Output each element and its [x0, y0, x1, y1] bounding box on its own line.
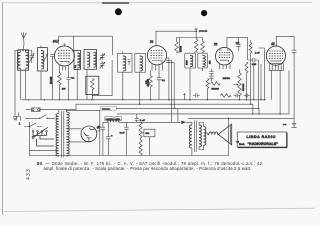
resistor R3	[175, 39, 179, 53]
grid cap wire 75	[227, 38, 248, 60]
bus 3	[100, 108, 259, 114]
svg-text:0,05: 0,05	[252, 64, 257, 66]
label campo	[105, 117, 114, 121]
voice coil	[205, 132, 218, 135]
oscillator coil L2	[38, 46, 48, 100]
tube V5 80	[81, 126, 97, 142]
svg-text:400: 400	[62, 89, 66, 91]
switch S2	[24, 123, 42, 127]
IF transformer IFT1	[84, 50, 97, 100]
plate loop 42	[277, 36, 295, 50]
resistor R4	[194, 31, 198, 52]
svg-text:mod.: mod.	[239, 142, 245, 146]
tone capacitor	[292, 50, 297, 52]
svg-text:0,1: 0,1	[71, 78, 75, 80]
rectifier wires	[66, 110, 99, 155]
page top edge	[3, 2, 312, 4]
svg-text:8 mF: 8 mF	[120, 133, 126, 135]
mains left wire	[29, 122, 57, 156]
trimmer capacitor B	[100, 61, 106, 69]
pointer arrow	[235, 141, 239, 143]
grid cap wire 78	[156, 31, 196, 46]
IFT2 can B	[198, 53, 208, 71]
padder box B1	[86, 76, 99, 100]
registration dot left	[115, 8, 122, 15]
svg-text:250000: 250000	[211, 89, 219, 91]
filter capacitor A	[101, 122, 105, 155]
svg-text:500000: 500000	[243, 83, 245, 91]
grid resistor 42	[245, 62, 248, 100]
decoupling row capacitor c	[244, 94, 251, 98]
filter capacitor B	[106, 122, 110, 155]
wire link	[194, 38, 203, 53]
volume potentiometer	[234, 70, 242, 100]
tap connector	[195, 28, 198, 32]
svg-text:BOB.: BOB.	[116, 119, 121, 121]
svg-text:250000: 250000	[223, 78, 231, 80]
wire column b	[253, 62, 255, 100]
output transformer T2 core	[194, 121, 196, 153]
svg-text:50000: 50000	[180, 45, 182, 52]
capacitor 2mF	[135, 114, 139, 122]
junction arrow	[183, 93, 186, 100]
label bob	[115, 117, 121, 121]
divider box	[141, 129, 155, 155]
svg-text:100: 100	[236, 42, 240, 44]
filter capacitor C	[124, 122, 128, 155]
page bottom edge	[4, 208, 315, 211]
tube V1 6A7	[54, 44, 74, 71]
wire avc	[166, 63, 178, 123]
svg-text:"RADIORURALE": "RADIORURALE"	[248, 142, 279, 146]
T2 primary	[189, 122, 192, 155]
wire column a with resistor	[249, 40, 252, 104]
coupling capacitor 0,05	[248, 58, 259, 62]
speaker	[218, 124, 232, 145]
tube V4 42	[266, 46, 285, 70]
return wire right	[228, 118, 230, 155]
mains plug	[17, 113, 21, 121]
bleeder resistor lower	[139, 140, 142, 156]
resistor R6	[206, 79, 209, 100]
trimmer capacitor A	[100, 53, 106, 60]
capacitor 100	[236, 38, 240, 51]
svg-text:+: +	[111, 133, 113, 137]
wire screen 78	[166, 61, 172, 123]
wire from IFT1 bottom	[92, 60, 112, 96]
bus 5	[188, 117, 294, 119]
bus 1	[22, 99, 267, 119]
svg-text:o m: o m	[283, 124, 287, 126]
svg-text:6A7: 6A7	[53, 40, 59, 44]
capacitor C4	[157, 71, 161, 100]
registration dot right	[201, 10, 207, 16]
antenna	[21, 32, 26, 49]
diode caps	[209, 69, 213, 81]
bus 2	[76, 104, 253, 114]
grid capacitor	[50, 55, 54, 100]
ground lead	[13, 51, 20, 121]
T1 secondary	[66, 110, 99, 156]
diode load resistor	[211, 82, 221, 86]
maker label box	[237, 132, 287, 148]
decoupling row capacitor a	[193, 94, 200, 98]
voltage selector	[32, 127, 54, 146]
svg-text:4 mF: 4 mF	[255, 53, 261, 55]
screen wire 42	[288, 70, 290, 114]
caption line 2	[44, 166, 320, 171]
B plus line	[103, 121, 192, 124]
svg-text:75: 75	[214, 43, 218, 47]
coil L3	[74, 51, 81, 100]
svg-text:presa alt.: presa alt.	[199, 30, 208, 33]
page number 433 rotated	[26, 168, 32, 180]
bus3 label patch	[101, 106, 116, 110]
cathode resistor R1	[58, 71, 62, 100]
decoupling row capacitor b	[234, 94, 241, 98]
T1 primary	[56, 110, 59, 156]
fuse	[32, 108, 41, 112]
caption line 1	[37, 161, 317, 166]
tube V3 75	[216, 47, 234, 69]
switch S1	[25, 115, 55, 119]
svg-text:5000: 5000	[187, 60, 189, 65]
tube V2 78	[147, 46, 166, 71]
svg-text:+: +	[98, 124, 100, 128]
wire column e	[259, 48, 265, 100]
antenna coil L1	[18, 50, 29, 100]
wire column d	[260, 64, 262, 100]
grid loop wire over 6A7	[59, 36, 113, 55]
T2 secondary	[199, 123, 208, 150]
wire plate 78	[166, 58, 169, 100]
coil box L5	[135, 54, 146, 105]
svg-text:50.000: 50.000	[50, 76, 53, 84]
coil box L4	[118, 51, 132, 100]
svg-text:Antenna: Antenna	[102, 108, 111, 111]
decoupling row resistor	[221, 94, 232, 98]
tuning capacitor C1	[26, 51, 35, 64]
field coil	[108, 119, 119, 122]
svg-text:2 mF: 2 mF	[140, 120, 146, 122]
fuse line	[26, 104, 76, 110]
bypass capacitor C3	[66, 71, 70, 100]
bleeder resistor upper	[139, 122, 142, 140]
svg-text:CAMPO: CAMPO	[106, 118, 114, 121]
svg-text:42: 42	[271, 42, 275, 46]
svg-text:LINDA RADIO: LINDA RADIO	[247, 135, 276, 139]
cathode resistor R2	[149, 71, 153, 100]
svg-text:1: 1	[19, 122, 21, 126]
ground symbol	[292, 118, 297, 127]
resistor R5	[201, 38, 205, 54]
wire sg feed	[177, 38, 194, 53]
svg-text:78: 78	[150, 40, 154, 44]
IFT2 can A	[185, 53, 196, 100]
svg-text:0,1: 0,1	[162, 80, 166, 82]
bottom bus	[29, 155, 228, 157]
cathode wire 42	[270, 70, 272, 99]
wire column c	[258, 60, 260, 108]
power transformer T1 core	[61, 111, 63, 158]
bus 4	[117, 113, 289, 114]
svg-text:600: 600	[210, 60, 212, 64]
bias wire 42	[279, 70, 281, 114]
page left edge	[2, 2, 4, 215]
wire to ground bus	[293, 52, 295, 118]
svg-text:0,1: 0,1	[75, 64, 77, 68]
svg-text:600: 600	[145, 133, 149, 135]
